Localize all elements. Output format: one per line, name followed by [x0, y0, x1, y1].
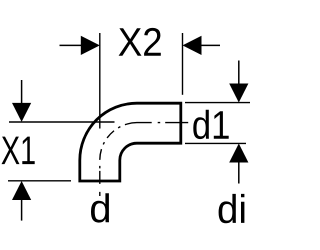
di dimension arrow [238, 162, 240, 184]
pipe bend outline [80, 103, 181, 181]
X1 dimension bottom arrow [21, 199, 23, 221]
extension line X1 top (horizontal axis) [9, 121, 115, 123]
X2 dimension left arrow [60, 44, 83, 46]
extension line d1 top [185, 102, 250, 104]
label d [91, 193, 109, 222]
label d1 [193, 110, 228, 139]
X2 dimension right arrow [200, 44, 220, 46]
label X2 [119, 28, 161, 56]
extension line X1 bottom (pipe end) [8, 180, 71, 182]
label di [219, 194, 245, 223]
label X1 [2, 137, 35, 165]
d1 dimension top arrow [238, 61, 240, 85]
X1 dimension top arrow [21, 80, 23, 104]
extension line X2 right (pipe end) [182, 33, 184, 95]
extension line X2 left (vertical axis) [99, 33, 101, 129]
centerline (dash-dot) of bend [100, 123, 188, 196]
extension line d1 bottom [185, 142, 246, 144]
